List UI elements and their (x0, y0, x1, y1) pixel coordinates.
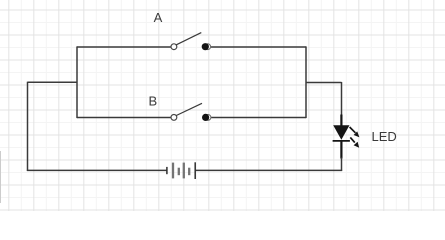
wire (195, 169, 342, 171)
svg-text:A: A (154, 10, 163, 25)
wire (305, 46, 307, 118)
wire (340, 140, 342, 171)
wire (210, 46, 307, 48)
wire (210, 117, 306, 119)
LED D1 (333, 125, 360, 148)
wire (28, 81, 78, 83)
wire (77, 117, 171, 119)
label B (148, 94, 157, 109)
switch B (171, 103, 211, 121)
svg-text:LED: LED (372, 129, 397, 144)
label A (154, 10, 163, 25)
svg-text:B: B (148, 94, 157, 109)
wire (76, 46, 78, 118)
battery (167, 162, 195, 179)
wire (27, 82, 29, 171)
wire (306, 82, 342, 84)
wire (77, 46, 171, 48)
wire (340, 82, 342, 126)
switch A (171, 33, 211, 51)
wire (27, 169, 167, 171)
label LED (372, 129, 397, 144)
